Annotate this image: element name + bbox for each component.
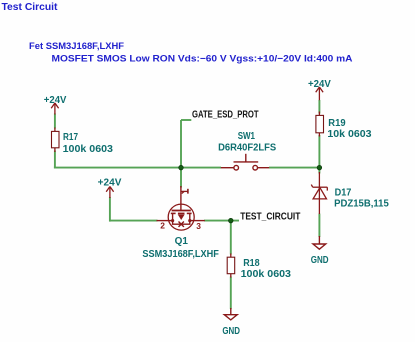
wire junction down to R18: [230, 221, 232, 255]
power symbol +24V right: [316, 87, 323, 100]
wire label stub GATE_ESD_PROT: [181, 119, 191, 121]
svg-text:+24V: +24V: [308, 79, 331, 90]
svg-text:SW1: SW1: [238, 131, 256, 142]
svg-text:3: 3: [196, 221, 201, 231]
channel contact bars: [171, 212, 176, 214]
svg-text:100k 0603: 100k 0603: [241, 269, 292, 280]
X marker: [179, 222, 184, 227]
wire gate vertical: [180, 120, 182, 188]
wire source horizontal: [110, 220, 158, 222]
resistor R17: [54, 128, 56, 132]
svg-text:Q1: Q1: [175, 236, 189, 247]
svg-text:TEST_CIRCUIT: TEST_CIRCUIT: [240, 211, 300, 222]
switch SW1: [221, 154, 269, 170]
wire source vertical: [109, 197, 111, 222]
arrow (pointing down, P-channel): [178, 214, 185, 220]
power symbol +24V left: [51, 103, 58, 115]
wire switch to right rail: [269, 167, 319, 169]
wire drain to junction: [204, 220, 239, 222]
svg-text:+24V: +24V: [44, 95, 67, 106]
svg-text:10k 0603: 10k 0603: [327, 129, 372, 140]
stubs: [172, 213, 174, 220]
svg-text:R19: R19: [328, 118, 346, 129]
svg-text:+24V: +24V: [98, 177, 122, 188]
svg-text:100k 0603: 100k 0603: [63, 144, 114, 155]
transistor Q1 P-MOSFET: [157, 186, 205, 230]
gate pin: [180, 186, 182, 210]
svg-text:2: 2: [160, 221, 165, 231]
svg-text:R17: R17: [63, 132, 78, 143]
svg-text:Test Circuit: Test Circuit: [2, 2, 59, 13]
svg-text:D6R40F2LFS: D6R40F2LFS: [218, 143, 276, 154]
ground symbol left: [224, 308, 237, 320]
svg-text:MOSFET SMOS Low RON Vds:−60 V: MOSFET SMOS Low RON Vds:−60 V Vgss:+10/−…: [52, 53, 353, 64]
gate bar: [172, 210, 191, 212]
wire main horizontal bus left: [54, 167, 221, 169]
junction node gate bus: [179, 165, 184, 170]
svg-text:Fet SSM3J168F,LXHF: Fet SSM3J168F,LXHF: [29, 41, 124, 52]
junction node test circuit: [229, 218, 234, 223]
svg-text:GND: GND: [222, 326, 240, 337]
svg-text:R18: R18: [243, 258, 260, 269]
junction node right rail: [317, 165, 322, 170]
svg-text:GATE_ESD_PROT: GATE_ESD_PROT: [192, 109, 259, 120]
wire right rail vertical: [318, 100, 320, 114]
ground symbol right: [313, 236, 326, 249]
pin dots: [171, 219, 174, 222]
wire left rail vertical: [54, 114, 56, 129]
power symbol +24V middle: [106, 187, 113, 199]
svg-text:GND: GND: [311, 255, 329, 266]
wire R18 to GND: [230, 277, 232, 310]
resistor R18: [230, 254, 232, 258]
svg-text:D17: D17: [335, 188, 352, 199]
zener diode D17: [311, 172, 327, 214]
drain pin 3: [191, 220, 205, 222]
svg-text:PDZ15B,115: PDZ15B,115: [334, 199, 389, 210]
source pin 2: [157, 220, 172, 222]
pin 1 marker (rotated numeral): [181, 190, 188, 192]
resistor R19: [318, 112, 320, 116]
svg-text:SSM3J168F,LXHF: SSM3J168F,LXHF: [142, 249, 219, 260]
bulk U line: [173, 221, 190, 225]
